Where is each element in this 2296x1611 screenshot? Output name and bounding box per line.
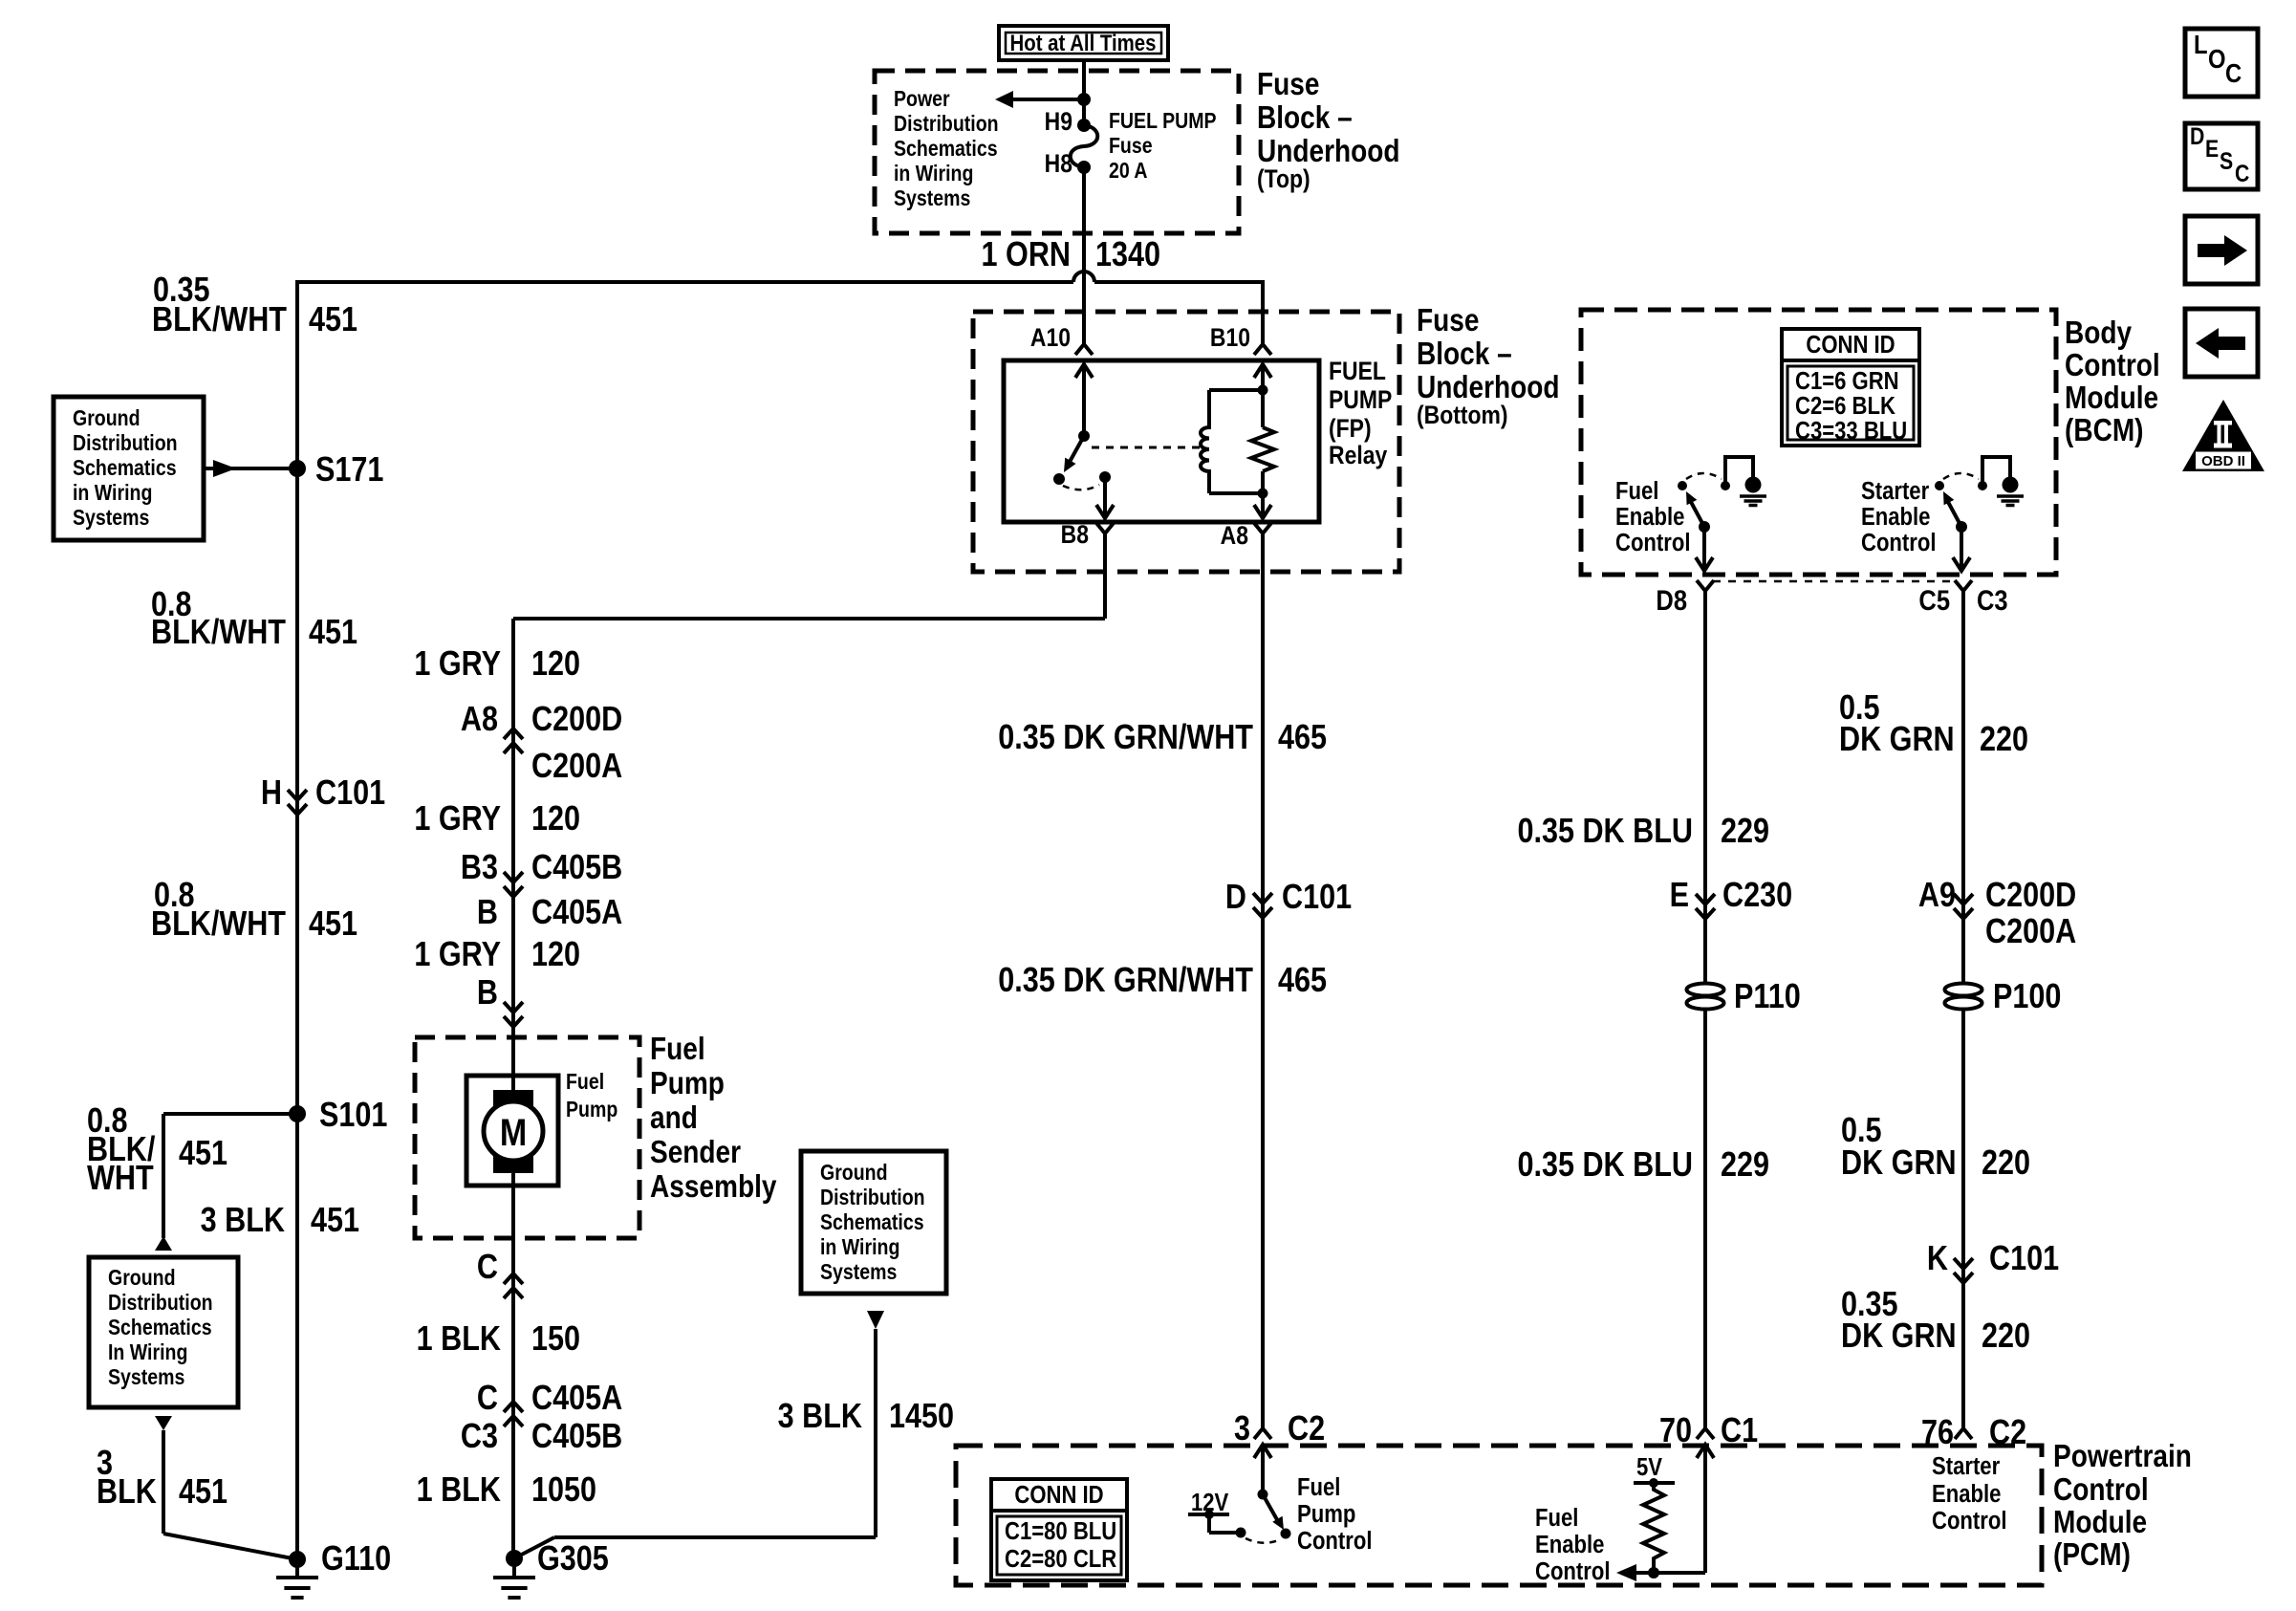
svg-text:D: D xyxy=(1225,879,1246,917)
svg-text:H9: H9 xyxy=(1045,107,1072,136)
svg-text:220: 220 xyxy=(1980,721,2028,759)
svg-text:C405A: C405A xyxy=(531,1380,622,1418)
table: CONN ID (PCM) xyxy=(991,1479,1127,1580)
svg-text:C200D: C200D xyxy=(531,701,622,739)
relay mechanical link (dashed) to coil xyxy=(1092,446,1201,449)
svg-text:Ground: Ground xyxy=(820,1161,888,1186)
svg-text:C101: C101 xyxy=(315,774,385,813)
wire: left vertical ground wire 451 (S171 to G110) xyxy=(295,280,299,1559)
wire: top horizontal feed from left column to B10, hops over ORN wire xyxy=(297,280,1073,284)
svg-text:Schematics: Schematics xyxy=(73,456,177,481)
svg-text:C405A: C405A xyxy=(531,894,622,932)
svg-text:Fuel: Fuel xyxy=(1535,1504,1578,1532)
svg-text:C405B: C405B xyxy=(531,1418,622,1456)
svg-text:FUEL: FUEL xyxy=(1329,357,1386,385)
svg-text:B: B xyxy=(477,974,498,1012)
svg-text:C200A: C200A xyxy=(531,748,622,786)
pull-up resistor xyxy=(1643,1483,1664,1573)
svg-text:451: 451 xyxy=(311,1202,359,1240)
wire: 1 GRY 120 down to fuel pump xyxy=(511,619,515,1037)
module box: Fuse Block - Underhood (Top), dashed xyxy=(875,71,1239,233)
splice S171 xyxy=(289,460,306,477)
svg-text:C1=80 BLU: C1=80 BLU xyxy=(1005,1517,1116,1545)
svg-text:E: E xyxy=(1670,877,1689,915)
pass-through grommet P110 xyxy=(1687,984,1724,996)
svg-text:A8: A8 xyxy=(1221,521,1248,550)
svg-text:1450: 1450 xyxy=(889,1398,954,1436)
svg-text:Control: Control xyxy=(2053,1472,2149,1508)
BCM starter enable switch xyxy=(1935,481,1944,490)
svg-text:C3: C3 xyxy=(461,1418,498,1456)
svg-text:C: C xyxy=(477,1380,498,1418)
relay switch dashed travel arc xyxy=(1063,485,1099,490)
svg-text:B8: B8 xyxy=(1061,520,1089,549)
fuse FUEL PUMP 20A between H9 and H8 xyxy=(1077,119,1091,132)
svg-text:(BCM): (BCM) xyxy=(2065,413,2144,448)
svg-text:3 BLK: 3 BLK xyxy=(201,1202,285,1240)
svg-text:C405B: C405B xyxy=(531,849,622,887)
svg-text:Fuse: Fuse xyxy=(1257,67,1319,102)
svg-text:0.35 DK BLU: 0.35 DK BLU xyxy=(1517,813,1693,851)
svg-text:D: D xyxy=(2190,122,2204,149)
icon OBD II triangle xyxy=(2182,400,2264,471)
wire: A10 into switch common xyxy=(1082,364,1086,436)
svg-text:B10: B10 xyxy=(1210,323,1250,352)
svg-text:(Bottom): (Bottom) xyxy=(1417,401,1508,429)
svg-text:465: 465 xyxy=(1278,719,1327,757)
svg-text:Control: Control xyxy=(1932,1507,2006,1535)
svg-text:Enable: Enable xyxy=(1861,503,1930,531)
svg-text:Distribution: Distribution xyxy=(73,431,178,456)
svg-text:Starter: Starter xyxy=(1932,1452,2001,1480)
svg-text:(PCM): (PCM) xyxy=(2053,1537,2131,1573)
svg-text:C230: C230 xyxy=(1722,877,1792,915)
svg-text:Fuse: Fuse xyxy=(1109,134,1153,159)
svg-text:in Wiring: in Wiring xyxy=(73,481,152,506)
arrow out of pump ground reference box xyxy=(867,1311,884,1329)
svg-text:Underhood: Underhood xyxy=(1417,370,1560,405)
svg-text:451: 451 xyxy=(179,1135,227,1173)
relay switch NO contact to B8 xyxy=(1099,471,1111,483)
svg-text:DK GRN: DK GRN xyxy=(1841,1317,1957,1356)
svg-text:Schematics: Schematics xyxy=(108,1316,212,1340)
svg-text:(Top): (Top) xyxy=(1257,164,1310,193)
BCM starter enable ground xyxy=(1982,457,2010,486)
svg-text:1 GRY: 1 GRY xyxy=(414,800,501,838)
wire: branch from S101 to lower ground reference xyxy=(163,1112,297,1116)
svg-text:(FP): (FP) xyxy=(1329,414,1372,443)
svg-text:120: 120 xyxy=(531,800,580,838)
svg-text:A8: A8 xyxy=(461,701,498,739)
reference box: Ground Distribution Schematics in Wiring Systems (upper) xyxy=(54,397,204,540)
svg-text:C1=6 GRN: C1=6 GRN xyxy=(1795,367,1899,395)
wire: fuel enable control to D8 xyxy=(1702,527,1706,572)
wire: 3 BLK 1450 to G305 xyxy=(874,1329,877,1537)
icon box arrow left xyxy=(2185,309,2258,377)
svg-text:Ground: Ground xyxy=(108,1266,176,1291)
svg-text:451: 451 xyxy=(179,1473,227,1512)
svg-text:S171: S171 xyxy=(315,451,383,490)
PCM fuel pump control switch xyxy=(1258,1490,1268,1500)
svg-text:Fuel: Fuel xyxy=(566,1070,604,1095)
svg-text:1 GRY: 1 GRY xyxy=(414,645,501,684)
svg-text:In Wiring: In Wiring xyxy=(108,1340,187,1365)
svg-text:Distribution: Distribution xyxy=(820,1186,925,1210)
svg-text:Power: Power xyxy=(894,87,950,112)
svg-text:B3: B3 xyxy=(461,849,498,887)
svg-text:A10: A10 xyxy=(1030,323,1071,352)
svg-text:451: 451 xyxy=(309,301,357,339)
ground G305 xyxy=(506,1550,523,1567)
icon box DESC xyxy=(2185,123,2258,189)
svg-text:WHT: WHT xyxy=(87,1160,154,1198)
relay resistor xyxy=(1251,427,1274,471)
wire: starter enable 220 down to PCM xyxy=(1961,591,1965,1428)
svg-text:A9: A9 xyxy=(1918,877,1956,915)
svg-text:DK GRN: DK GRN xyxy=(1841,1144,1957,1183)
svg-text:C2=6 BLK: C2=6 BLK xyxy=(1795,392,1895,420)
svg-text:BLK/WHT: BLK/WHT xyxy=(151,614,287,652)
power feed box: Hot at All Times xyxy=(999,26,1168,60)
svg-text:C200D: C200D xyxy=(1985,877,2076,915)
svg-text:1 GRY: 1 GRY xyxy=(414,936,501,974)
svg-text:C: C xyxy=(2225,57,2242,88)
svg-text:P100: P100 xyxy=(1993,978,2061,1016)
svg-text:Sender: Sender xyxy=(650,1135,741,1170)
svg-text:Schematics: Schematics xyxy=(894,137,998,162)
wire: fuel enable 229 down to PCM xyxy=(1703,591,1707,1428)
reference box: Ground Distribution Schematics in Wiring Systems (pump) xyxy=(801,1151,946,1294)
svg-text:Pump: Pump xyxy=(566,1098,617,1122)
wire through fuel pump motor xyxy=(511,1037,515,1559)
svg-text:C: C xyxy=(477,1249,498,1287)
wire: hot feed into fuse H9 xyxy=(1082,60,1086,125)
svg-text:in Wiring: in Wiring xyxy=(894,162,973,186)
wire: coil/resistor node down to A8 xyxy=(1261,471,1265,518)
wire: B10 feed down into relay xyxy=(1261,280,1265,344)
svg-text:H: H xyxy=(261,774,282,813)
svg-text:Fuse: Fuse xyxy=(1417,303,1479,338)
svg-text:Ground: Ground xyxy=(73,406,141,431)
relay coil xyxy=(1209,388,1263,392)
connector dashed line D8 to C5 xyxy=(1713,580,1956,583)
svg-text:1050: 1050 xyxy=(531,1471,596,1510)
wire: fuel enable control node xyxy=(1636,1571,1705,1575)
svg-text:150: 150 xyxy=(531,1320,580,1359)
svg-text:Fuel: Fuel xyxy=(650,1032,705,1067)
svg-text:C: C xyxy=(2235,160,2250,186)
svg-text:Body: Body xyxy=(2065,316,2132,351)
wire: lower box to G110 xyxy=(162,1430,165,1534)
icon box arrow right xyxy=(2185,216,2258,284)
module box: Body Control Module (BCM), dashed xyxy=(1581,310,2056,575)
svg-text:220: 220 xyxy=(1982,1317,2030,1356)
ground G110 xyxy=(289,1551,306,1568)
svg-text:G305: G305 xyxy=(537,1540,609,1578)
arrow to power distribution xyxy=(1013,98,1084,101)
svg-text:Control: Control xyxy=(1861,529,1936,556)
svg-text:Control: Control xyxy=(2065,348,2160,383)
svg-text:Relay: Relay xyxy=(1329,441,1387,469)
svg-text:5V: 5V xyxy=(1636,1453,1662,1481)
svg-text:C200A: C200A xyxy=(1985,913,2076,951)
wire: B10 into coil/resistor node xyxy=(1261,364,1265,427)
svg-text:1 BLK: 1 BLK xyxy=(417,1471,501,1510)
svg-text:Control: Control xyxy=(1297,1527,1372,1555)
table: CONN ID (BCM) xyxy=(1782,329,1919,446)
wire: starter enable control to C5/C3 xyxy=(1960,527,1963,572)
svg-text:Control: Control xyxy=(1615,529,1690,556)
svg-text:0.35 DK GRN/WHT: 0.35 DK GRN/WHT xyxy=(998,962,1253,1000)
fuel pump motor xyxy=(466,1076,558,1186)
icon box LOC xyxy=(2185,29,2258,97)
svg-text:C2: C2 xyxy=(1288,1410,1325,1448)
splice S101 xyxy=(289,1105,306,1122)
svg-text:S101: S101 xyxy=(319,1097,387,1135)
svg-text:Block –: Block – xyxy=(1257,100,1353,136)
svg-text:Underhood: Underhood xyxy=(1257,134,1400,169)
svg-text:120: 120 xyxy=(531,936,580,974)
svg-text:229: 229 xyxy=(1721,813,1769,851)
svg-text:1 BLK: 1 BLK xyxy=(417,1320,501,1359)
svg-text:H8: H8 xyxy=(1045,149,1072,178)
wire: B8 down and left to fuel pump feed xyxy=(1103,533,1107,619)
svg-text:Enable: Enable xyxy=(1932,1480,2001,1508)
svg-text:Fuel: Fuel xyxy=(1297,1473,1340,1501)
svg-text:Schematics: Schematics xyxy=(820,1210,924,1235)
svg-text:S: S xyxy=(2220,147,2233,174)
svg-text:CONN ID: CONN ID xyxy=(1806,331,1895,359)
svg-text:OBD II: OBD II xyxy=(2201,453,2245,469)
svg-text:Systems: Systems xyxy=(73,506,149,531)
svg-text:C5: C5 xyxy=(1918,584,1950,616)
svg-text:Pump: Pump xyxy=(1297,1500,1355,1528)
svg-text:1340: 1340 xyxy=(1095,236,1160,274)
svg-text:L: L xyxy=(2194,29,2208,59)
svg-text:Block –: Block – xyxy=(1417,337,1512,372)
BCM fuel enable switch xyxy=(1678,481,1687,490)
svg-text:Control: Control xyxy=(1535,1557,1610,1585)
relay box: FUEL PUMP (FP) Relay xyxy=(1004,360,1319,522)
svg-text:D8: D8 xyxy=(1656,584,1687,616)
svg-text:C3: C3 xyxy=(1977,584,2008,616)
svg-text:Module: Module xyxy=(2065,381,2158,416)
pass-through grommet P100 xyxy=(1945,984,1982,996)
svg-text:Systems: Systems xyxy=(108,1365,184,1390)
svg-text:DK GRN: DK GRN xyxy=(1839,721,1955,759)
svg-text:Distribution: Distribution xyxy=(108,1291,213,1316)
fuel pump control dashed travel arc xyxy=(1245,1538,1281,1543)
svg-text:Systems: Systems xyxy=(894,186,970,211)
svg-text:FUEL PUMP: FUEL PUMP xyxy=(1109,109,1217,134)
svg-text:CONN ID: CONN ID xyxy=(1014,1481,1103,1509)
relay switch NC stub contact xyxy=(1053,473,1065,485)
svg-text:C3=33 BLU: C3=33 BLU xyxy=(1795,417,1907,445)
svg-text:C101: C101 xyxy=(1282,879,1352,917)
svg-text:120: 120 xyxy=(531,645,580,684)
svg-text:Pump: Pump xyxy=(650,1066,725,1101)
svg-text:Systems: Systems xyxy=(820,1260,897,1285)
svg-text:BLK/WHT: BLK/WHT xyxy=(152,301,288,339)
svg-text:Assembly: Assembly xyxy=(650,1169,776,1205)
svg-text:Enable: Enable xyxy=(1535,1531,1604,1558)
svg-text:BLK: BLK xyxy=(97,1473,157,1512)
svg-text:451: 451 xyxy=(309,614,357,652)
arrow into lower ground reference box xyxy=(155,1236,172,1251)
svg-text:E: E xyxy=(2205,135,2219,162)
svg-text:220: 220 xyxy=(1982,1144,2030,1183)
svg-text:229: 229 xyxy=(1721,1146,1769,1185)
svg-text:451: 451 xyxy=(309,905,357,944)
svg-text:465: 465 xyxy=(1278,962,1327,1000)
svg-text:20 A: 20 A xyxy=(1109,159,1148,184)
svg-text:C101: C101 xyxy=(1989,1240,2059,1278)
arrow out of lower ground reference box xyxy=(155,1416,172,1430)
svg-text:in Wiring: in Wiring xyxy=(820,1235,899,1260)
module box: Powertrain Control Module (PCM), dashed xyxy=(956,1446,2042,1585)
svg-text:0.35 DK GRN/WHT: 0.35 DK GRN/WHT xyxy=(998,719,1253,757)
svg-text:BLK/WHT: BLK/WHT xyxy=(151,905,287,944)
svg-text:Hot at All Times: Hot at All Times xyxy=(1010,30,1157,55)
module box: Fuse Block - Underhood (Bottom), dashed xyxy=(973,312,1399,572)
wire: pin 70 C1 into 5V pull-up xyxy=(1697,1445,1714,1458)
module box: Fuel Pump and Sender Assembly, dashed xyxy=(415,1037,639,1238)
svg-text:Powertrain: Powertrain xyxy=(2053,1439,2192,1474)
svg-text:G110: G110 xyxy=(321,1540,391,1578)
wire: A8 fuel pump relay output down (465) xyxy=(1261,533,1265,1428)
svg-text:PUMP: PUMP xyxy=(1329,385,1392,414)
svg-text:Starter: Starter xyxy=(1861,477,1930,505)
svg-text:and: and xyxy=(650,1100,698,1136)
wire: pin 3 C2 into fuel pump control switch xyxy=(1254,1445,1271,1458)
svg-text:B: B xyxy=(477,894,498,932)
reference box: Ground Distribution Schematics In Wiring Systems (lower) xyxy=(89,1257,238,1407)
svg-text:K: K xyxy=(1927,1240,1948,1278)
BCM fuel enable ground xyxy=(1725,457,1753,486)
svg-text:1 ORN: 1 ORN xyxy=(982,236,1071,274)
svg-text:0.35 DK BLU: 0.35 DK BLU xyxy=(1517,1146,1693,1185)
relay switch: common pivot xyxy=(1078,430,1090,442)
svg-text:C2=80 CLR: C2=80 CLR xyxy=(1005,1545,1116,1573)
svg-text:3 BLK: 3 BLK xyxy=(778,1398,862,1436)
svg-text:P110: P110 xyxy=(1734,978,1801,1016)
svg-text:Module: Module xyxy=(2053,1505,2147,1540)
svg-text:Distribution: Distribution xyxy=(894,112,999,137)
svg-text:Fuel: Fuel xyxy=(1615,477,1658,505)
svg-text:3: 3 xyxy=(1234,1410,1250,1448)
svg-text:Enable: Enable xyxy=(1615,503,1684,531)
svg-text:M: M xyxy=(500,1110,527,1153)
svg-text:O: O xyxy=(2208,43,2226,74)
wire: fuse output 1340 ORN down to A10 xyxy=(1082,167,1086,344)
off-page arrow to S171 xyxy=(204,467,297,470)
relay switch arm xyxy=(1070,436,1084,462)
